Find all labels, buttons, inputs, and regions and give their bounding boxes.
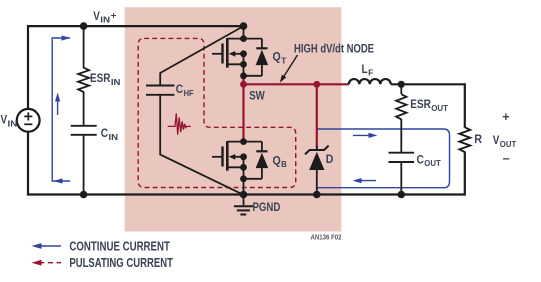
wire ESRout to COUT (400, 119, 402, 152)
svg-text:AN136 F02: AN136 F02 (311, 235, 342, 242)
resistor R load (459, 127, 470, 152)
svg-text:SW: SW (249, 91, 265, 103)
resistor ESRin (78, 68, 89, 92)
node SW dot (red) (240, 81, 247, 88)
transistor QT (226, 38, 229, 68)
wire SW down to QB drain (red) (242, 84, 244, 141)
wire right edge vertical lower (464, 152, 466, 196)
wire bottom ground rail (28, 193, 465, 195)
legend pulsating-current arrow (39, 262, 61, 264)
wire QB source to PGND (243, 167, 245, 194)
wire ESRout upper (400, 84, 402, 94)
svg-text:C: C (101, 128, 108, 140)
svg-text:–: – (503, 151, 510, 165)
voltage source VIN (17, 109, 40, 132)
svg-text:V: V (493, 135, 500, 147)
QT body diode (261, 39, 263, 49)
capacitor COUT (389, 152, 415, 154)
capacitor CIN (71, 125, 97, 127)
node QB anode junction dot (240, 175, 247, 182)
svg-text:PULSATING CURRENT: PULSATING CURRENT (69, 255, 173, 270)
node VIN+ junction dot (80, 22, 88, 30)
wire QT source vertical (243, 64, 245, 78)
wire SW node horizontal (red) (244, 83, 349, 85)
wire CHF top diagonal to VIN+ node (160, 26, 243, 86)
red dashed pulsating-current loop (138, 38, 296, 187)
svg-text:C: C (417, 154, 424, 166)
QB body diode (261, 142, 263, 152)
svg-text:PGND: PGND (253, 202, 281, 214)
HIGH dV/dt pointer arrow (283, 55, 298, 79)
svg-text:V: V (1, 115, 8, 127)
ground PGND symbol (243, 195, 245, 206)
blue output loop top arrow (353, 134, 374, 136)
legend continue-current arrow (38, 245, 61, 247)
wire COUT to ground rail (400, 162, 402, 195)
svg-text:+: + (111, 10, 117, 21)
svg-text:D: D (326, 154, 334, 166)
node COUT bottom junction dot (398, 191, 406, 199)
svg-text:C: C (176, 84, 183, 96)
wire QB diode top horizontal (244, 141, 262, 143)
wire left vertical upper (27, 25, 29, 109)
node QT body dot (240, 50, 247, 57)
svg-text:HF: HF (184, 88, 194, 98)
diode D (schottky) (316, 146, 318, 151)
svg-text:+: + (502, 110, 509, 124)
wire D anode to ground rail (316, 170, 318, 195)
node SW-D branch dot (red) (313, 81, 320, 88)
wire SW branch down to diode D (red) (316, 84, 318, 146)
svg-text:CONTINUE CURRENT: CONTINUE CURRENT (69, 239, 170, 254)
wire right edge vertical upper (464, 83, 466, 128)
red ringing/pulse glyph (168, 113, 191, 134)
svg-text:Q: Q (273, 155, 281, 167)
wire ESRin branch upper (83, 26, 85, 68)
wire QT diode bottom horizontal (244, 75, 262, 77)
wire QT diode top horizontal (244, 38, 262, 40)
blue output loop bottom arrow (356, 180, 376, 182)
svg-text:ESR: ESR (90, 73, 111, 85)
svg-text:T: T (281, 55, 287, 65)
svg-text:IN: IN (111, 77, 121, 87)
wire QB diode bottom horizontal (244, 178, 262, 180)
node top rail end dot (240, 22, 248, 30)
node QB drain dot (240, 138, 247, 145)
node QB source dot (240, 164, 247, 171)
node CIN bottom junction dot (80, 191, 88, 199)
node QT anode junction dot (240, 72, 247, 79)
wire left vertical lower (27, 132, 29, 196)
svg-text:F: F (368, 68, 373, 78)
wire QT drain from top rail (243, 26, 245, 38)
wire QT source to SW (red) (242, 77, 244, 84)
svg-text:V: V (93, 11, 100, 23)
transistor QB (226, 141, 229, 171)
resistor ESRout (396, 94, 406, 119)
node QT source dot (240, 61, 247, 68)
svg-text:OUT: OUT (424, 158, 441, 168)
svg-text:HIGH dV/dt NODE: HIGH dV/dt NODE (294, 43, 374, 55)
svg-text:IN: IN (8, 118, 18, 128)
svg-text:OUT: OUT (431, 103, 449, 113)
svg-text:L: L (362, 64, 368, 76)
blue input continuous-current loop (52, 38, 70, 181)
svg-text:B: B (281, 159, 287, 169)
wire CHF bottom diagonal to PGND node (160, 95, 243, 195)
node PGND junction dot (240, 191, 248, 199)
node LF-ESRout junction dot (398, 81, 405, 88)
svg-text:IN: IN (100, 15, 110, 25)
node QT drain dot (240, 35, 247, 42)
blue input loop mid up-arrow (57, 96, 59, 115)
pink shaded hot-loop region (125, 7, 342, 231)
node D anode junction dot (313, 191, 321, 199)
svg-text:IN: IN (109, 132, 119, 142)
svg-text:R: R (474, 132, 482, 146)
capacitor CHF (146, 85, 174, 87)
wire top rail VIN+ (28, 25, 244, 27)
wire ESRin to CIN (83, 92, 85, 126)
node QB body dot (240, 153, 247, 160)
wire CIN to ground rail (83, 135, 85, 194)
svg-text:ESR: ESR (410, 99, 431, 111)
blue output continuous-current loop (317, 129, 450, 188)
inductor LF (349, 79, 391, 84)
svg-text:Q: Q (273, 52, 281, 64)
svg-text:OUT: OUT (500, 139, 517, 149)
wire LF to output top (391, 83, 465, 85)
